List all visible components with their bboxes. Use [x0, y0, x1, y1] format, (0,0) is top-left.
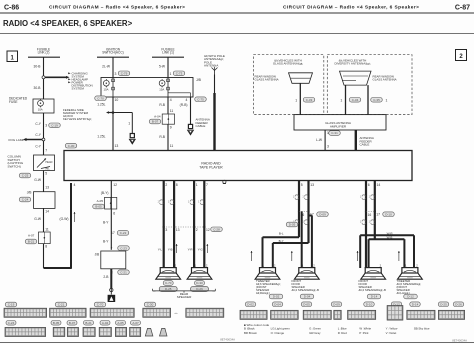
tweeter LH speaker	[402, 268, 418, 273]
noise capacitor A-05 box	[105, 197, 117, 209]
svg-text:O :Orange: O :Orange	[271, 331, 285, 335]
inline connectors front RH	[295, 195, 298, 197]
fusible link FL2 bus bar	[152, 56, 184, 58]
legend connector labels row 1 left	[5, 302, 17, 307]
svg-text:C-79: C-79	[121, 72, 128, 76]
svg-text:14: 14	[377, 183, 381, 187]
legend grid H	[303, 310, 331, 319]
svg-text:G-W: G-W	[34, 217, 42, 221]
legend grid J	[348, 310, 376, 319]
legend small connector at 53.2	[53, 327, 65, 336]
svg-text:BR:Brown: BR:Brown	[244, 331, 257, 335]
svg-text:C-28: C-28	[213, 228, 220, 232]
legend connector grid C	[90, 308, 134, 317]
svg-text:C-Y: C-Y	[35, 145, 41, 149]
antenna lead-in thin	[214, 75, 216, 94]
svg-text:2: 2	[165, 183, 167, 187]
option box: vehicles with glass antenna	[254, 55, 324, 115]
arrows on rear wires	[176, 244, 178, 253]
junction pin 13	[173, 226, 175, 228]
svg-text:C-34: C-34	[352, 98, 359, 102]
wire C-Y segment 3	[43, 141, 45, 155]
legend label D-12	[391, 302, 402, 307]
svg-text:B-05: B-05	[95, 205, 102, 209]
svg-text:30-B: 30-B	[34, 64, 42, 68]
svg-text:1: 1	[340, 99, 342, 103]
svg-text:D-10: D-10	[385, 212, 392, 216]
svg-text:G-W: G-W	[34, 178, 42, 182]
front LH wire 2 from pin 14	[374, 181, 376, 240]
svg-text:C-19: C-19	[8, 303, 15, 307]
svg-text:C-30: C-30	[68, 144, 75, 148]
svg-text:C-31: C-31	[331, 131, 338, 135]
svg-text:8: 8	[45, 245, 47, 249]
svg-text:1: 1	[170, 72, 172, 76]
connector below column switch	[19, 173, 31, 178]
svg-text:D-25: D-25	[440, 302, 447, 306]
junction pin 12	[203, 226, 205, 228]
svg-text:10A: 10A	[104, 87, 109, 91]
svg-text:C-23: C-23	[120, 246, 127, 250]
svg-text:D-09: D-09	[333, 302, 340, 306]
svg-text:D-12: D-12	[407, 295, 414, 299]
svg-text:ANTENNA: ANTENNA	[204, 64, 218, 68]
legend connector grid B	[50, 308, 87, 317]
svg-text:11: 11	[170, 109, 174, 113]
svg-text:D-14: D-14	[371, 295, 378, 299]
svg-text:C-73: C-73	[176, 72, 183, 76]
svg-text:4: 4	[74, 183, 76, 187]
branch junction to side marker system	[112, 111, 115, 114]
svg-text:C-19: C-19	[51, 124, 58, 128]
header rule	[0, 12, 474, 14]
svg-text:8ET40034A: 8ET40034A	[220, 338, 235, 342]
svg-text:CIRCUIT DIAGRAM – Radio <4: CIRCUIT DIAGRAM – Radio <4 Speaker, 6 Sp…	[49, 5, 185, 11]
ground eyelet 3	[130, 134, 134, 138]
svg-text:5: 5	[301, 183, 303, 187]
option box: vehicles with diversity antenna	[327, 55, 412, 115]
svg-text:3: 3	[165, 228, 167, 232]
svg-text:C-35: C-35	[373, 98, 380, 102]
svg-text:B-Y: B-Y	[103, 240, 109, 244]
svg-text:CABLE: CABLE	[360, 143, 370, 147]
svg-text:A-07: A-07	[28, 234, 35, 238]
rear speaker wire Y-G	[203, 181, 205, 269]
svg-text:TAPE PLAYER: TAPE PLAYER	[199, 165, 223, 169]
svg-text:SPEAKER: SPEAKER	[177, 295, 192, 299]
svg-text:Y-B: Y-B	[168, 248, 173, 252]
svg-text:A-04: A-04	[102, 321, 109, 325]
svg-text:SWITCH): SWITCH)	[8, 164, 21, 168]
arrows front RH	[251, 251, 253, 261]
legend grommet shapes	[145, 328, 153, 336]
svg-text:9: 9	[170, 126, 172, 130]
svg-text:HEAD: HEAD	[46, 161, 53, 164]
svg-text:SB:Sky blue: SB:Sky blue	[414, 327, 430, 331]
svg-text:SYSTEM: SYSTEM	[72, 86, 85, 90]
ground symbol G2	[129, 139, 135, 144]
svg-text:RADIO <4 SPEAKER, 6 SPEAKER>: RADIO <4 SPEAKER, 6 SPEAKER>	[3, 19, 133, 28]
svg-text:D-02: D-02	[247, 302, 254, 306]
svg-text:B-21: B-21	[85, 321, 92, 325]
amplifier feeder cable thick	[355, 130, 357, 151]
svg-text:C-Y: C-Y	[35, 133, 41, 137]
svg-text:B-07: B-07	[152, 120, 159, 124]
legend small connector at 129.6	[130, 327, 141, 336]
svg-text:D-09: D-09	[319, 212, 326, 216]
svg-text:5: 5	[45, 172, 47, 176]
ignition switch bus bar	[97, 56, 129, 58]
svg-text:6: 6	[368, 183, 370, 187]
junction to charging system	[42, 76, 45, 79]
svg-text:J/B: J/B	[196, 78, 202, 82]
wire 3L-W	[112, 57, 114, 77]
rear speaker RH	[192, 268, 208, 273]
svg-text:⇔: ⇔	[174, 311, 179, 317]
svg-text:GR:Gray: GR:Gray	[309, 331, 321, 335]
legend small connector at 99.2	[99, 327, 111, 336]
wire G-W segment to J/B	[43, 171, 45, 192]
svg-text:V :Violet: V :Violet	[386, 331, 397, 335]
junction row pins 16/17 front RH	[298, 210, 300, 212]
legend label D-10	[364, 302, 375, 307]
svg-text:GLASS ANTENNA: GLASS ANTENNA	[255, 78, 279, 82]
svg-text:GLASS ANTENNA: GLASS ANTENNA	[373, 78, 397, 82]
svg-text:DIVERSITY ANTENNA&gt;: DIVERSITY ANTENNA&gt;	[334, 62, 370, 66]
svg-text:LINK (1): LINK (1)	[162, 51, 174, 55]
svg-text:Y-G: Y-G	[198, 248, 204, 252]
rear speaker LH	[160, 268, 176, 273]
inline connector on wire Y-R	[190, 200, 193, 202]
glass antenna element 1	[289, 73, 313, 84]
svg-text:KEYLESS ENTRY&gt;: KEYLESS ENTRY&gt;	[63, 117, 92, 121]
front door speaker RH	[299, 268, 315, 273]
rear speaker RH connector labels	[195, 281, 205, 286]
junction pin 3	[163, 226, 165, 228]
fusible link FL1 bus bar	[28, 56, 60, 58]
svg-text:D-14: D-14	[412, 302, 419, 306]
ground branch from ACC junction	[113, 112, 132, 114]
wire (R-B) ground branch	[190, 97, 192, 125]
svg-text:AMPLIFIER: AMPLIFIER	[330, 125, 347, 129]
svg-text:10A: 10A	[38, 107, 43, 111]
legend connector grid A	[4, 308, 47, 317]
svg-text:B-05: B-05	[53, 321, 60, 325]
svg-text:3: 3	[45, 124, 47, 128]
svg-text:4: 4	[186, 98, 188, 102]
junction block J/B lower-left box	[34, 192, 56, 209]
svg-text:(B-Y): (B-Y)	[101, 191, 109, 195]
legend label D-25	[438, 302, 449, 307]
svg-text:C-Y: C-Y	[35, 122, 41, 126]
svg-text:B-L: B-L	[279, 232, 284, 236]
svg-text:C-21: C-21	[120, 270, 127, 274]
wire 5-W	[167, 57, 169, 77]
svg-text:D-30: D-30	[196, 281, 203, 285]
svg-text:1: 1	[295, 99, 297, 103]
svg-text:&lt;4 SPEAKER&gt;-B: &lt;4 SPEAKER&gt;-B	[292, 288, 319, 292]
front door speaker LH	[365, 268, 381, 273]
legend label D-05	[301, 302, 312, 307]
inline connector on wire Y-G	[200, 200, 203, 202]
intermediate connector dotted line	[164, 226, 205, 228]
svg-text:C-21: C-21	[58, 303, 65, 307]
radio connector label C-30	[65, 143, 77, 148]
rear speaker wire Y-B	[173, 181, 175, 269]
svg-text:30-B: 30-B	[34, 86, 42, 90]
svg-text:C-25: C-25	[22, 174, 29, 178]
wire R-B segment 2	[167, 124, 169, 150]
svg-text:17: 17	[376, 212, 380, 216]
svg-text:LINK (2): LINK (2)	[38, 51, 50, 55]
svg-text:Y-L: Y-L	[158, 248, 163, 252]
svg-text:13: 13	[176, 228, 180, 232]
svg-text:1: 1	[386, 99, 388, 103]
wire 30-B upper segment	[43, 57, 45, 99]
legend grid M	[438, 310, 464, 319]
inline connector on wire Y-B	[170, 200, 173, 202]
svg-text:17: 17	[111, 231, 115, 235]
svg-text:Y-R: Y-R	[188, 248, 194, 252]
svg-text:5-W: 5-W	[159, 64, 166, 68]
wire R-B segment 1	[167, 97, 169, 114]
svg-text:16: 16	[368, 213, 372, 217]
svg-text:12: 12	[206, 228, 210, 232]
inline connector on wire Y-L	[160, 200, 163, 202]
svg-text:A-07: A-07	[132, 321, 139, 325]
svg-text:13: 13	[115, 144, 119, 148]
inline connectors 2 front LH	[362, 220, 365, 222]
diversity lead left	[345, 85, 347, 115]
wire C-Y segment 1	[43, 113, 45, 140]
legend label D-02	[245, 302, 256, 307]
diversity lead right	[367, 85, 369, 115]
inline connectors 2 front RH	[295, 220, 298, 222]
svg-text:8: 8	[176, 183, 178, 187]
J/B lower pins	[95, 96, 107, 101]
svg-text:10: 10	[115, 98, 119, 102]
svg-text:7: 7	[111, 246, 113, 250]
wire G-W segment 2	[43, 208, 45, 232]
legend connector labels row 2 left	[6, 321, 16, 326]
front RH wire 2 from pin 13	[307, 181, 309, 244]
bottom border	[0, 342, 474, 344]
svg-text:D-26: D-26	[455, 302, 462, 306]
svg-text:D-04: D-04	[304, 295, 311, 299]
legend label D-09	[331, 302, 342, 307]
svg-text:6: 6	[113, 211, 115, 215]
svg-text:L-W: L-W	[316, 138, 323, 142]
legend grid L	[407, 310, 435, 319]
glass antenna element 2 (diversity)	[340, 71, 372, 85]
junction row pins 16/17 front LH	[365, 210, 367, 212]
svg-text:D-10: D-10	[366, 302, 373, 306]
legend connector grid D	[143, 308, 171, 317]
wire 2-B to ground	[110, 269, 112, 288]
svg-text:CABLE: CABLE	[196, 124, 206, 128]
fuse F2 15A	[167, 78, 169, 98]
svg-text:C-86: C-86	[4, 5, 19, 12]
svg-text:C-30: C-30	[147, 303, 154, 307]
svg-text:SWITCH(ACC): SWITCH(ACC)	[102, 51, 123, 55]
ground eyelet	[188, 124, 192, 128]
svg-text:13: 13	[45, 185, 49, 189]
page index box 1	[7, 51, 18, 62]
svg-text:B-Y: B-Y	[103, 221, 109, 225]
rear speaker LH connector labels	[163, 281, 173, 286]
junction pin 2	[193, 226, 195, 228]
legend label D-26	[453, 302, 464, 307]
radio and tape player U1	[64, 151, 412, 181]
svg-text:C-87: C-87	[455, 5, 470, 12]
svg-text:13: 13	[310, 183, 314, 187]
svg-text:R-B: R-B	[159, 103, 165, 107]
svg-text:FOG LAMP: FOG LAMP	[9, 138, 25, 142]
door speaker verticals front RH	[301, 211, 303, 268]
title rule	[0, 33, 474, 35]
inline connectors front LH	[362, 195, 365, 197]
svg-text:1: 1	[128, 122, 130, 126]
arrows front LH	[357, 251, 359, 261]
svg-text:14: 14	[45, 209, 49, 213]
svg-text:FUSE: FUSE	[9, 100, 18, 104]
legend small connector at 67.3	[67, 327, 78, 336]
svg-text:C-70: C-70	[97, 303, 104, 307]
svg-text:C-24: C-24	[22, 198, 29, 202]
svg-text:J/B: J/B	[27, 190, 33, 194]
junction block J/B main box	[101, 78, 193, 98]
legend grid K tall	[387, 306, 403, 321]
legend label D-14	[410, 302, 421, 307]
svg-text:1.25L: 1.25L	[97, 102, 105, 106]
legend grid F	[240, 310, 267, 319]
ground symbol G1	[188, 130, 194, 135]
svg-text:4: 4	[170, 98, 172, 102]
svg-text:1.25L: 1.25L	[97, 135, 105, 139]
glass antenna 1 lead	[299, 83, 301, 114]
svg-text:CIRCUIT DIAGRAM – Radio <4: CIRCUIT DIAGRAM – Radio <4 Speaker, 6 Sp…	[283, 5, 419, 11]
ground return wire to radio pin 4	[43, 244, 45, 268]
fuse F1 10A	[112, 78, 114, 98]
svg-text:B-21: B-21	[28, 240, 35, 244]
svg-text:3: 3	[115, 72, 117, 76]
page index box 2	[456, 50, 467, 61]
noise filter A-07 box	[39, 232, 51, 244]
legend grid I small	[334, 310, 341, 319]
front LH wire 1 from pin 6	[365, 181, 367, 269]
rear speaker bracket	[153, 290, 156, 292]
svg-text:D-04: D-04	[274, 302, 281, 306]
dedicated fuse box	[33, 99, 54, 113]
legend connector grid E	[186, 308, 224, 317]
svg-text:GLASS ANTENNA&gt;: GLASS ANTENNA&gt;	[273, 62, 304, 66]
wire 1.25L segment 1	[112, 97, 114, 151]
svg-text:A-05: A-05	[117, 321, 124, 325]
svg-text:8ET40034A: 8ET40034A	[452, 339, 467, 343]
svg-text:(G-W): (G-W)	[60, 217, 69, 221]
column switch SW1 box	[34, 155, 55, 171]
svg-text:C-70: C-70	[97, 96, 104, 100]
svg-text:(R-B): (R-B)	[180, 103, 188, 107]
svg-text:TAIL: TAIL	[45, 168, 51, 171]
legend small box long	[5, 327, 46, 336]
svg-text:R :Red: R :Red	[338, 331, 347, 335]
svg-text:C-75: C-75	[197, 97, 204, 101]
svg-text:3: 3	[327, 145, 329, 149]
svg-text:C-70: C-70	[165, 281, 172, 285]
svg-text:2L-W: 2L-W	[102, 64, 111, 68]
svg-text:7: 7	[206, 183, 208, 187]
noise capacitor A-04 box	[162, 114, 174, 124]
svg-text:7: 7	[45, 149, 47, 153]
legend small connector at 83.0	[83, 327, 95, 336]
body ground symbol (filled square)	[108, 295, 116, 302]
ground eyelet 2	[110, 288, 113, 291]
svg-text:12: 12	[113, 183, 117, 187]
svg-text:B-07: B-07	[69, 321, 76, 325]
pole antenna symbol	[214, 71, 216, 75]
rear speaker wire Y-L	[163, 181, 165, 269]
svg-text:D-05: D-05	[289, 223, 296, 227]
front RH wire 1 from pin 5	[298, 181, 300, 238]
svg-text:R-B: R-B	[159, 135, 165, 139]
antenna jack mark below radio	[223, 180, 226, 183]
J/B internal bus to pin 4	[168, 92, 191, 94]
column B-Y wire from pin 12	[110, 181, 112, 250]
svg-text:C-33: C-33	[306, 98, 313, 102]
svg-text:A-04: A-04	[154, 115, 161, 119]
svg-text:11: 11	[45, 228, 49, 232]
svg-text:2: 2	[196, 228, 198, 232]
svg-text:C-24: C-24	[8, 321, 15, 325]
svg-text:C-22: C-22	[120, 231, 127, 235]
legend label D-04	[272, 302, 283, 307]
svg-text:A-05: A-05	[97, 199, 104, 203]
tweeter RH speaker	[260, 268, 276, 273]
legend small connector at 115.4	[115, 327, 126, 336]
svg-text:15A: 15A	[159, 87, 164, 91]
svg-text:P :Pink: P :Pink	[359, 331, 369, 335]
antenna feeder cable thick	[213, 93, 215, 151]
glass antenna amplifier box	[294, 115, 386, 130]
fog lamp branch	[27, 139, 44, 141]
legend grid G	[271, 310, 299, 319]
svg-text:&lt;RH&gt;): &lt;RH&gt;)	[256, 291, 270, 295]
svg-text:J/B: J/B	[95, 253, 100, 257]
svg-text:D-05: D-05	[303, 302, 310, 306]
svg-text:11: 11	[170, 144, 174, 148]
rear speaker wire Y-R	[193, 181, 195, 269]
svg-text:D-02: D-02	[273, 295, 280, 299]
svg-text:1: 1	[196, 183, 198, 187]
wire L-W amp to radio	[324, 130, 326, 151]
svg-text:2-B: 2-B	[103, 275, 109, 279]
svg-text:&lt;4 SPEAKER&gt;-B: &lt;4 SPEAKER&gt;-B	[359, 288, 386, 292]
